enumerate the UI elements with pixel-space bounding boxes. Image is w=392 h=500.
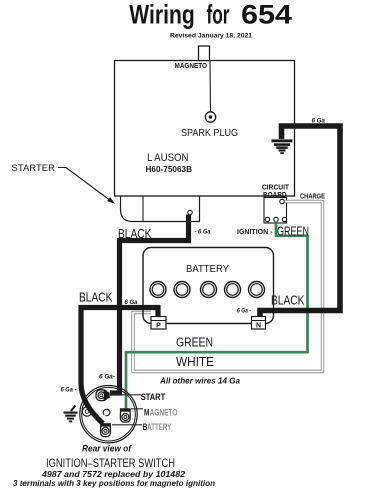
- svg-text:BLACK: BLACK: [79, 291, 113, 305]
- svg-text:STARTER: STARTER: [12, 163, 56, 174]
- svg-text:6 Ga -: 6 Ga -: [61, 387, 77, 394]
- svg-text:3 terminals with 3 key positio: 3 terminals with 3 key positions for mag…: [13, 478, 215, 488]
- svg-text:START: START: [141, 392, 166, 402]
- svg-text:P: P: [156, 323, 161, 330]
- svg-text:GREEN: GREEN: [277, 225, 309, 239]
- svg-text:654: 654: [241, 0, 292, 29]
- svg-text:H60-75063B: H60-75063B: [146, 164, 193, 174]
- svg-text:CHARGE: CHARGE: [300, 192, 325, 201]
- svg-text:BLACK: BLACK: [271, 294, 305, 308]
- svg-text:WHITE: WHITE: [176, 355, 214, 369]
- svg-text:N: N: [256, 323, 261, 330]
- svg-text:SPARK PLUG: SPARK PLUG: [181, 128, 238, 139]
- svg-text:6 Ga-: 6 Ga-: [99, 374, 115, 381]
- svg-text:All other wires 14 Ga: All other wires 14 Ga: [159, 377, 241, 386]
- svg-text:GREEN: GREEN: [176, 336, 213, 350]
- svg-text:BATTERY: BATTERY: [186, 263, 229, 275]
- svg-text:L AUSON: L AUSON: [147, 152, 189, 164]
- svg-text:IGNITION -: IGNITION -: [237, 227, 273, 236]
- svg-text:IGNITION–STARTER SWITCH: IGNITION–STARTER SWITCH: [46, 456, 175, 470]
- svg-text:Revised January 18, 2021: Revised January 18, 2021: [170, 32, 252, 39]
- svg-text:MAGNETO: MAGNETO: [175, 61, 208, 70]
- svg-text:- 6 Ga: - 6 Ga: [195, 229, 211, 236]
- svg-text:Wiring: Wiring: [129, 0, 195, 29]
- svg-text:for: for: [207, 0, 230, 29]
- svg-text:Rear view of: Rear view of: [82, 444, 132, 455]
- svg-text:MAGNETO: MAGNETO: [144, 408, 178, 418]
- svg-text:BATTERY: BATTERY: [143, 422, 172, 432]
- svg-text:6 Ga -: 6 Ga -: [237, 308, 251, 315]
